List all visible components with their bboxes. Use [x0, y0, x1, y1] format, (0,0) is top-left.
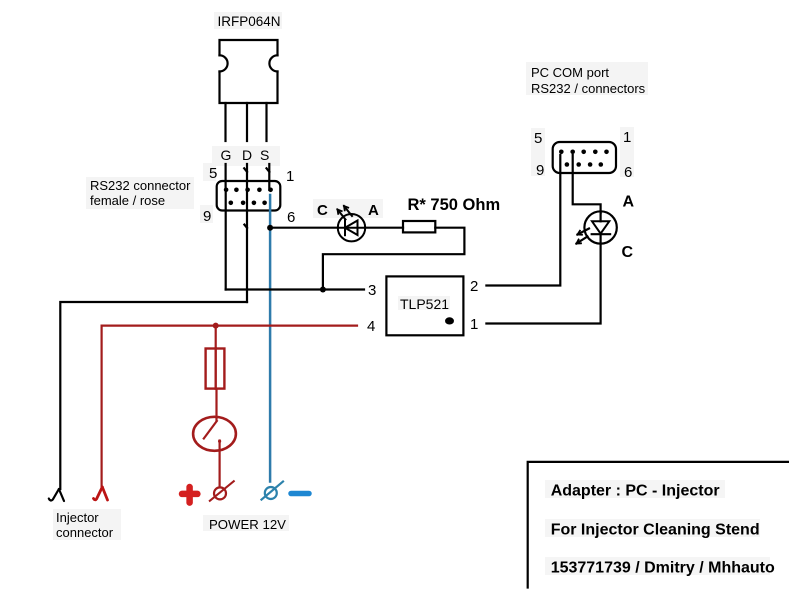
junction node on blue wire	[267, 225, 273, 231]
svg-text:TLP521: TLP521	[400, 296, 449, 312]
svg-text:3: 3	[368, 282, 376, 299]
label injector connector	[56, 510, 114, 540]
svg-text:1: 1	[470, 316, 478, 333]
LED D2 symbol	[577, 211, 617, 243]
LED D1 symbol	[338, 206, 366, 241]
svg-text:A: A	[623, 194, 635, 211]
wire TLP pin 2 to COM pin 5	[486, 155, 560, 286]
svg-text:5: 5	[209, 165, 217, 182]
wire from J1 pin 5 down to TLP pin 3 rail	[225, 190, 227, 290]
svg-text:5: 5	[534, 130, 542, 147]
transistor Q1 gate leg	[224, 103, 226, 141]
wire G to connector pin 5	[225, 164, 227, 190]
wire resistor R1 to TLP pin 3 rail	[323, 228, 465, 290]
wire red power to injector	[100, 326, 102, 487]
svg-text:connector: connector	[56, 525, 114, 540]
power plus terminal symbol	[210, 481, 234, 501]
wire junction to LED1 cathode	[270, 227, 338, 229]
wire fuse to switch	[215, 389, 217, 421]
svg-text:2: 2	[470, 278, 478, 295]
injector connector red fork	[94, 487, 108, 500]
wire switch to plus terminal	[219, 441, 221, 487]
svg-text:G: G	[221, 147, 232, 163]
svg-text:4: 4	[367, 318, 375, 335]
power minus terminal symbol blue	[262, 482, 284, 500]
svg-text:POWER 12V: POWER 12V	[209, 517, 286, 532]
title box	[528, 462, 789, 588]
transistor Q1 drain leg	[246, 103, 248, 141]
wire D to connector pin 3	[244, 164, 247, 302]
wire TLP pin 3 rail	[226, 288, 364, 290]
svg-text:R* 750 Ohm: R* 750 Ohm	[408, 196, 501, 214]
svg-text:Injector: Injector	[56, 510, 99, 525]
svg-text:RS232 connector: RS232 connector	[90, 178, 191, 193]
junction node on red rail	[213, 323, 219, 329]
svg-text:C: C	[622, 244, 634, 261]
connector J1 pins top row	[224, 188, 273, 193]
connector J2 PC COM port body	[553, 142, 616, 173]
LED D1 labels C A	[317, 202, 379, 219]
switch S1	[193, 417, 236, 451]
junction node on pin 3 rail	[320, 287, 326, 293]
wire red junction to fuse	[215, 326, 217, 349]
svg-text:C: C	[317, 202, 328, 219]
svg-text:153771739 / Dmitry / Mhhauto: 153771739 / Dmitry / Mhhauto	[551, 560, 775, 577]
svg-text:Adapter : PC - Injector: Adapter : PC - Injector	[551, 483, 720, 500]
svg-text:PC COM port: PC COM port	[531, 65, 609, 80]
svg-text:1: 1	[286, 168, 294, 185]
svg-text:A: A	[368, 202, 379, 219]
svg-text:RS232 / connectors: RS232 / connectors	[531, 81, 646, 96]
svg-text:female / rose: female / rose	[90, 193, 165, 208]
svg-text:1: 1	[623, 129, 631, 146]
fuse F1	[206, 349, 225, 389]
svg-text:IRFP064N: IRFP064N	[218, 14, 281, 29]
wire TLP pin 1 to LED D2 cathode	[486, 244, 600, 324]
optocoupler U1 pin1 mark	[445, 317, 454, 324]
svg-text:9: 9	[536, 162, 544, 179]
plus sign red	[182, 487, 197, 503]
svg-text:9: 9	[203, 208, 211, 225]
wire red power rail to TLP pin 4	[102, 325, 357, 327]
minus sign blue	[291, 491, 309, 497]
connector J2 pins bottom row	[565, 162, 603, 167]
wire blue from J1 pin 1 to power minus	[269, 195, 272, 482]
connector J1 RS232 female label	[90, 178, 191, 208]
wire black injector ground from J1 pin 3	[60, 302, 247, 489]
svg-text:6: 6	[287, 209, 295, 226]
transistor Q1 IRFP064N package outline	[220, 40, 278, 103]
connector J2 PC COM port label	[531, 65, 646, 96]
svg-text:6: 6	[624, 164, 632, 181]
injector connector black fork	[49, 489, 64, 501]
connector J2 pins top row	[559, 150, 609, 155]
svg-text:D: D	[242, 147, 252, 163]
svg-text:S: S	[260, 147, 269, 163]
resistor R1 body	[403, 221, 435, 232]
svg-text:For Injector Cleaning Stend: For Injector Cleaning Stend	[551, 522, 760, 539]
optocoupler U1 TLP521 body	[386, 276, 463, 335]
wire COM pin 4 to LED D2 anode	[573, 155, 601, 213]
wire LED1 to resistor R1	[365, 227, 403, 229]
wire S to connector pin 1	[267, 164, 270, 190]
connector J1 pins bottom row	[229, 201, 267, 206]
transistor Q1 source leg	[265, 103, 267, 141]
connector J1 RS232 female body	[217, 181, 281, 211]
transistor Q1 IRFP064N label	[218, 14, 281, 29]
